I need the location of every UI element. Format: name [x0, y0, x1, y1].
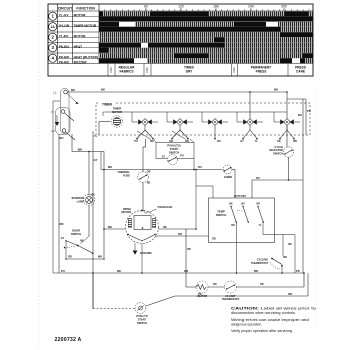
svg-text:BU: BU: [241, 202, 245, 205]
svg-text:OR: OR: [147, 171, 151, 174]
svg-text:SWITCH: SWITCH: [71, 232, 81, 236]
wire thermal fuse to motor: [142, 182, 144, 210]
wire motor left: [104, 228, 126, 230]
temp switch blade 3: [257, 206, 258, 207]
svg-text:YL-GY: YL-GY: [59, 13, 70, 17]
chassis ground: [56, 115, 58, 122]
svg-text:OVERLOAD: OVERLOAD: [158, 205, 173, 209]
svg-text:RD: RD: [147, 182, 151, 185]
wire main horizontal run: [101, 169, 223, 171]
svg-text:PK: PK: [277, 140, 281, 143]
svg-text:PK-BU: PK-BU: [59, 45, 70, 49]
motor run winding: [153, 219, 156, 228]
chart bars row 2 (MOTOR): [99, 32, 280, 37]
svg-text:SWITCH: SWITCH: [169, 150, 179, 154]
contact 1 selector blades: [144, 126, 146, 130]
svg-text:PK: PK: [198, 293, 202, 296]
timer cam contact 2: [167, 119, 193, 126]
svg-text:2200732 A: 2200732 A: [55, 337, 82, 343]
scan margin line right: [315, 88, 317, 332]
contact 3 drop: [214, 126, 216, 139]
svg-text:BK: BK: [274, 88, 278, 92]
svg-text:YL-PU: YL-PU: [59, 34, 69, 38]
wire temp sw out right: [262, 222, 264, 235]
wire right riser 2: [305, 99, 307, 135]
svg-text:BK: BK: [150, 140, 154, 143]
temp switch blade 2: [242, 206, 243, 207]
svg-text:SWITCH: SWITCH: [273, 152, 283, 155]
wire heater return: [303, 273, 305, 287]
heater: [196, 281, 208, 293]
wire heater mid: [186, 286, 196, 288]
svg-text:THERMOSTAT: THERMOSTAT: [251, 262, 268, 265]
wire motor bottom: [141, 244, 143, 274]
terminal block lower: [56, 108, 71, 135]
timer feed bus: [103, 111, 287, 113]
svg-text:BU: BU: [256, 177, 260, 180]
wire V101: [100, 152, 102, 170]
timer cam contact 3: [202, 119, 228, 126]
svg-text:TIMER: TIMER: [113, 106, 121, 110]
svg-text:TIMER: TIMER: [102, 102, 113, 106]
wire top feed to contact 5: [286, 92, 288, 119]
svg-text:PK: PK: [307, 109, 311, 113]
wire temp feed 1: [234, 170, 236, 199]
hi-limit thermostat: [225, 281, 237, 293]
wire selector out: [288, 157, 290, 180]
wire thermostat drop: [282, 235, 284, 256]
svg-text:CHIME: CHIME: [224, 175, 233, 179]
svg-text:GY: GY: [240, 140, 244, 143]
wire outer left chassis: [52, 101, 54, 273]
svg-text:BU: BU: [198, 166, 202, 169]
chime (buzzer): [223, 165, 232, 174]
svg-text:RD: RD: [178, 233, 182, 236]
svg-text:RD: RD: [212, 238, 216, 241]
svg-text:RD: RD: [59, 222, 63, 226]
wire door sw down: [65, 241, 67, 259]
svg-text:YL: YL: [254, 140, 258, 143]
svg-text:MOTOR: MOTOR: [74, 13, 87, 17]
chart bars row 1 (MOTOR): [99, 11, 103, 16]
svg-text:GROUND: GROUND: [140, 251, 152, 255]
svg-text:WH: WH: [98, 256, 102, 259]
svg-text:PRESS: PRESS: [256, 70, 267, 74]
svg-text:FUNCTION: FUNCTION: [76, 7, 95, 11]
wire buzzer dashed run: [93, 308, 135, 310]
svg-text:MOTOR: MOTOR: [121, 210, 131, 214]
svg-text:120: 120: [178, 5, 184, 9]
svg-text:RD: RD: [283, 256, 287, 259]
caution note: [231, 307, 316, 334]
svg-text:HEAT (BUZZER): HEAT (BUZZER): [74, 55, 98, 59]
svg-text:PUSH (TO): PUSH (TO): [167, 144, 180, 148]
wire contact1 to thermal fuse: [145, 139, 147, 147]
wire temp feed 2: [251, 180, 253, 198]
circuit number circles: [49, 12, 57, 20]
svg-text:BN: BN: [293, 140, 297, 143]
svg-text:GY: GY: [61, 237, 65, 240]
wire buzzer right riser: [307, 273, 309, 296]
svg-text:CAUTION: Label all wires p: CAUTION: Label all wires prior to: [231, 307, 316, 311]
temp switch blade 1: [230, 206, 231, 207]
scan margin line left: [38, 2, 40, 348]
chart footer cycle labels: [108, 64, 288, 77]
wire buzzer drop: [92, 273, 94, 309]
svg-text:START: START: [138, 318, 147, 322]
wire thermostat out: [281, 266, 283, 273]
svg-text:OFF: OFF: [145, 67, 149, 73]
svg-text:BK: BK: [288, 243, 292, 246]
timer sequence chart frame: [48, 4, 313, 76]
wire WH drop from N: [71, 134, 73, 152]
chart bars row 4 (HEAT BUZZER / BUZZER): [99, 53, 174, 58]
wire temp sw out left: [236, 222, 238, 273]
svg-text:TIMER MOTOR: TIMER MOTOR: [74, 24, 97, 28]
svg-text:OR: OR: [256, 202, 260, 205]
wire buzzer return run: [175, 295, 308, 297]
svg-text:BU: BU: [298, 113, 302, 117]
svg-text:BK: BK: [71, 88, 75, 92]
svg-text:PU: PU: [180, 155, 184, 158]
wire V295: [294, 235, 296, 273]
motor start winding: [128, 219, 131, 228]
timer cam contact 1: [132, 119, 158, 126]
svg-text:YL: YL: [258, 224, 262, 227]
svg-text:180: 180: [213, 5, 219, 9]
terminal N: [61, 110, 65, 114]
wire left BU riser: [58, 134, 60, 273]
wire heater right: [237, 286, 305, 288]
contact 4 selector blades: [249, 126, 251, 130]
svg-text:LAMP: LAMP: [77, 199, 85, 203]
motor winding box: [134, 216, 151, 230]
svg-text:300: 300: [281, 5, 287, 9]
svg-text:L1: L1: [53, 91, 57, 95]
svg-text:BUZZER: BUZZER: [74, 61, 88, 65]
svg-text:PK-BN: PK-BN: [59, 55, 70, 59]
timer enclosure (dashed): [96, 103, 310, 135]
svg-text:THERMOSTAT: THERMOSTAT: [222, 297, 240, 301]
wire buzzer out diagonal: [146, 296, 175, 306]
wire aux drop: [195, 170, 197, 230]
svg-text:OFF: OFF: [109, 67, 113, 73]
svg-text:1A: 1A: [51, 25, 56, 29]
svg-text:GY-OR: GY-OR: [59, 24, 70, 28]
svg-text:MOTOR: MOTOR: [74, 34, 87, 38]
svg-text:OFF: OFF: [232, 67, 236, 73]
wire right riser 1: [302, 99, 304, 273]
timer cam contact 5: [274, 119, 300, 126]
svg-text:BU: BU: [59, 136, 63, 140]
svg-text:HEAT: HEAT: [74, 45, 82, 49]
svg-text:RD: RD: [68, 256, 72, 259]
svg-text:PU: PU: [134, 140, 138, 143]
svg-text:dangerous operation.: dangerous operation.: [231, 323, 262, 327]
wire door sw to lamp: [81, 236, 90, 244]
svg-text:RD: RD: [231, 224, 235, 227]
wire lamp riser: [88, 152, 90, 196]
centrifugal switch blades: [128, 235, 141, 241]
svg-text:PK: PK: [296, 269, 300, 273]
wire timer motor stub: [99, 121, 111, 123]
svg-text:BK: BK: [117, 269, 121, 273]
terminal block (fuse holder): [61, 89, 70, 134]
wire push-start frame: [156, 142, 194, 144]
svg-text:DRY: DRY: [186, 70, 193, 74]
svg-text:PK: PK: [260, 283, 264, 286]
svg-text:N: N: [51, 110, 53, 114]
terminal L2: [62, 129, 66, 133]
svg-text:PU: PU: [61, 269, 65, 273]
svg-text:WH: WH: [78, 147, 83, 151]
start buzzer: [135, 303, 146, 314]
L1 blade: [67, 93, 77, 102]
svg-text:WH: WH: [108, 226, 112, 229]
svg-text:Verify proper operation after: Verify proper operation after servicing.: [231, 329, 293, 333]
wire lamp feed horizontal: [72, 151, 104, 153]
svg-text:240: 240: [248, 5, 254, 9]
svg-text:AUTO DRY: AUTO DRY: [234, 195, 247, 198]
motor ground: [134, 243, 136, 251]
wire GY riser: [92, 131, 94, 309]
wire lamp to door switch: [88, 206, 90, 236]
wire H180: [252, 179, 303, 181]
svg-text:RD: RD: [187, 248, 191, 251]
wire chime out: [232, 169, 235, 171]
terminal L1: [64, 90, 68, 94]
svg-text:WH: WH: [108, 166, 112, 169]
wire bottom neutral PU: [53, 272, 304, 274]
wire temp feed 0: [196, 185, 213, 187]
svg-text:GY: GY: [93, 158, 97, 162]
svg-text:SWITCH: SWITCH: [137, 321, 147, 325]
svg-text:RD: RD: [254, 269, 258, 273]
contact 2 selector blades: [179, 126, 181, 130]
contact 5 selector blades: [286, 126, 288, 130]
wire top feed to contact 4: [249, 92, 251, 119]
L2 blade: [65, 132, 75, 140]
svg-text:GY: GY: [162, 156, 166, 159]
wire heater feed: [185, 229, 187, 287]
chart bars row 3 (HEAT): [99, 43, 141, 48]
svg-text:TEMP: TEMP: [217, 210, 225, 214]
svg-text:BU: BU: [217, 140, 221, 143]
temperature switch box: [209, 198, 275, 243]
svg-text:BK: BK: [163, 226, 167, 229]
svg-text:disconnection when servicing c: disconnection when servicing controls.: [231, 311, 296, 315]
wire selector feed: [286, 126, 288, 147]
svg-text:FUSE: FUSE: [123, 173, 130, 177]
timer cam contact 4: [237, 119, 263, 126]
wire temp to thermostat: [263, 234, 295, 236]
svg-text:PK-RD: PK-RD: [59, 61, 70, 65]
svg-text:CARE: CARE: [296, 70, 305, 74]
svg-text:BK: BK: [229, 202, 233, 205]
svg-text:BK: BK: [91, 194, 95, 197]
svg-text:SWITCH: SWITCH: [216, 213, 227, 217]
wire motor right: [159, 228, 197, 230]
wire motor to temp box: [155, 235, 209, 237]
svg-text:BK: BK: [213, 283, 217, 286]
svg-text:START: START: [170, 147, 179, 151]
chart bars row 1A (TIMER MOTOR): [99, 22, 119, 27]
svg-text:FABRICS: FABRICS: [120, 70, 134, 74]
svg-text:PUSH TO: PUSH TO: [136, 314, 147, 318]
N blade: [64, 113, 74, 121]
svg-text:Wiring errors can cause improp: Wiring errors can cause improper and: [231, 318, 309, 322]
svg-text:YL: YL: [94, 134, 98, 138]
wire L1 top BK: [67, 91, 287, 93]
wire H259: [66, 258, 104, 260]
svg-text:60: 60: [144, 5, 148, 9]
svg-text:BK: BK: [101, 88, 105, 92]
wire return riser: [103, 152, 105, 260]
timeline scale ticks: [99, 8, 309, 11]
svg-text:BN: BN: [288, 293, 292, 296]
svg-text:CIRCUIT: CIRCUIT: [58, 7, 73, 11]
wire riser header: [287, 98, 306, 100]
